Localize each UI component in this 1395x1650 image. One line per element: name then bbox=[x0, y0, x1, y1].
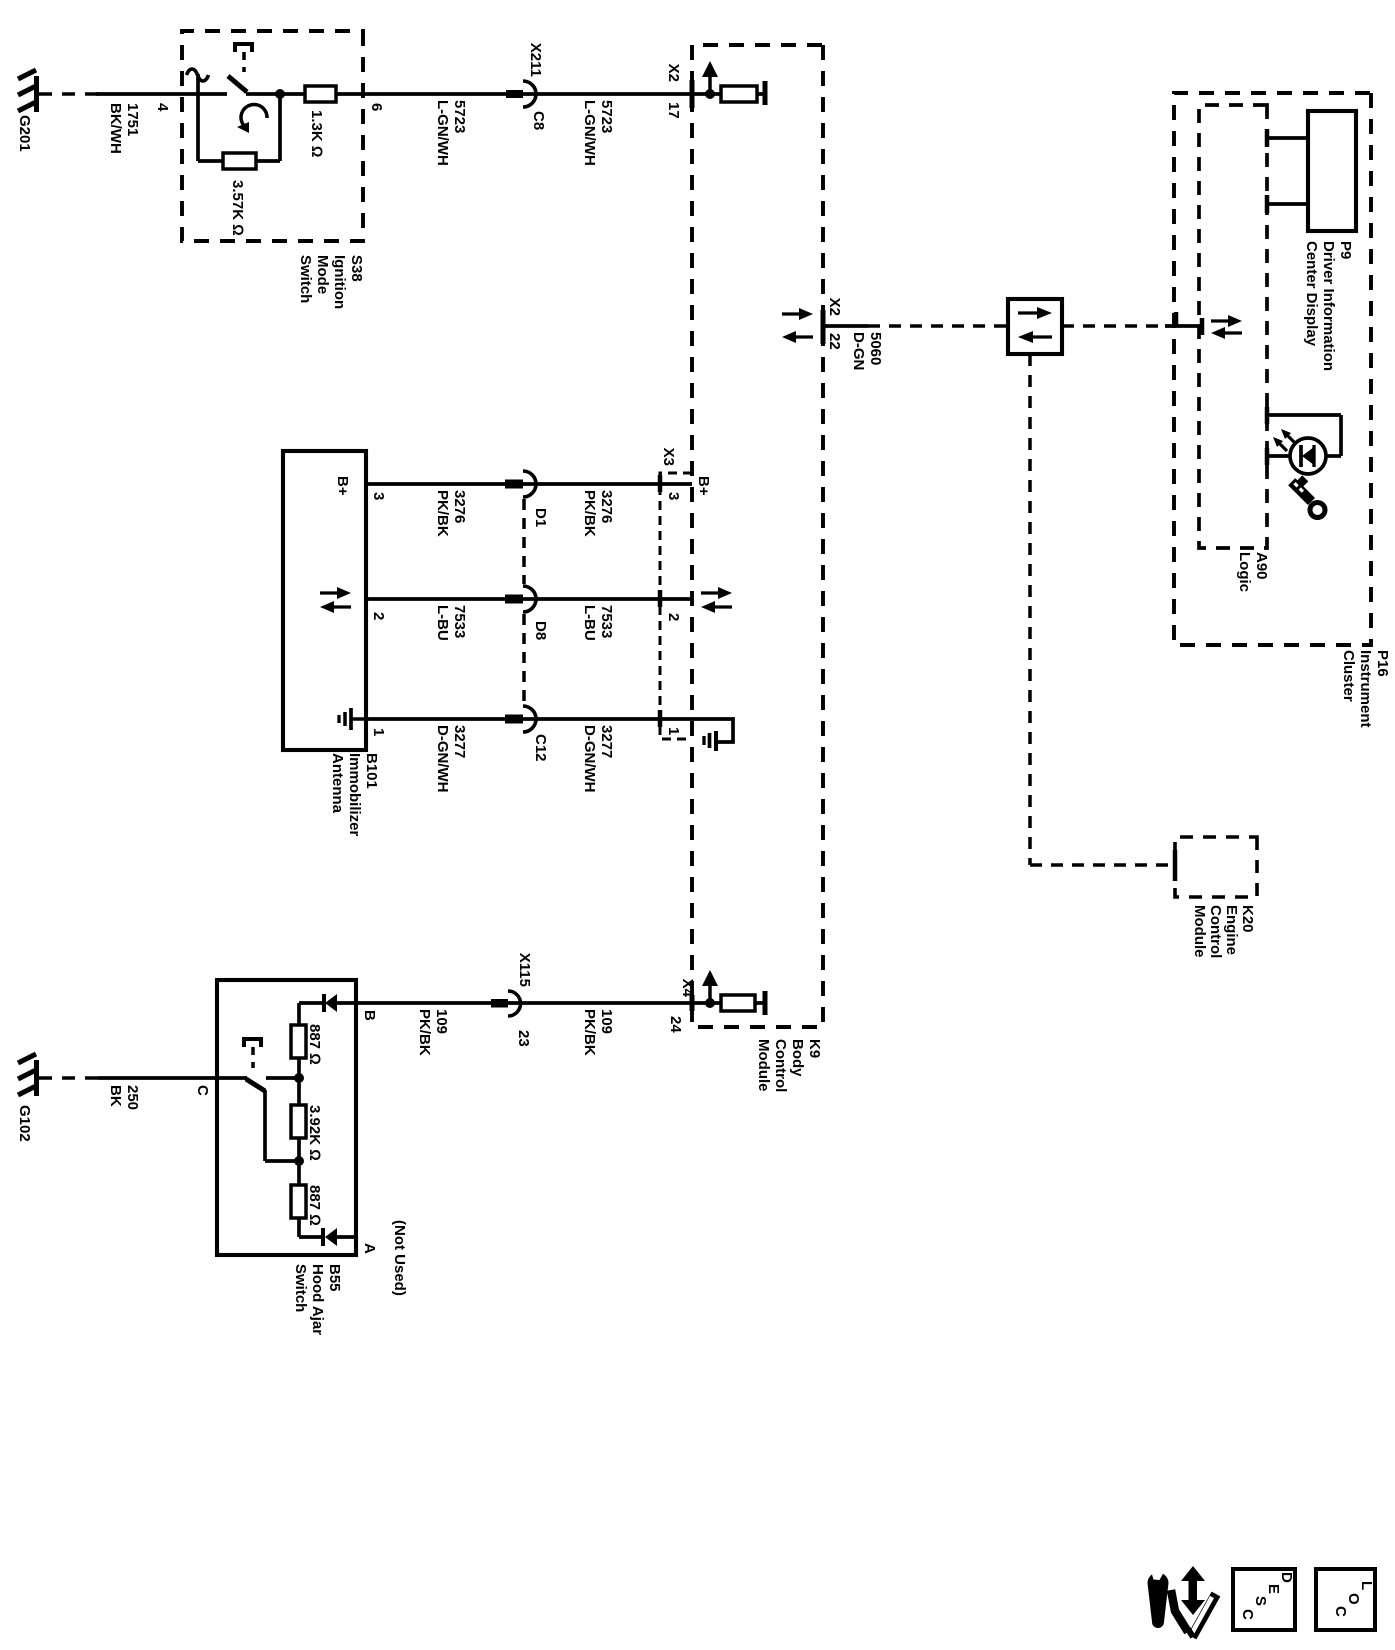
junction node B55 ladder right bbox=[294, 1156, 304, 1166]
svg-text:B101: B101 bbox=[363, 753, 380, 789]
svg-text:2: 2 bbox=[665, 613, 682, 621]
pin labels B101 bbox=[370, 492, 387, 736]
svg-text:22: 22 bbox=[826, 333, 843, 350]
pin labels B55 bbox=[194, 1010, 408, 1296]
switch S38 box (Ignition Mode Switch) bbox=[182, 31, 365, 309]
svg-text:Switch: Switch bbox=[297, 255, 314, 303]
svg-text:Control: Control bbox=[772, 1039, 789, 1092]
serial data arrows inside A90 bbox=[1211, 315, 1242, 339]
resistor 3.92K bbox=[291, 1078, 323, 1161]
wire D1 to X3-3 (3276 PK/BK) bbox=[523, 484, 692, 537]
wire D8 to X3-2 (7533 L-BU) bbox=[523, 599, 692, 641]
ground symbol inside BCM at X3-1 bbox=[692, 719, 733, 751]
svg-text:D: D bbox=[1278, 1572, 1295, 1583]
pin ticks X3 bbox=[658, 475, 663, 727]
svg-text:B55: B55 bbox=[326, 1264, 343, 1292]
svg-text:Body: Body bbox=[789, 1039, 806, 1077]
svg-text:X115: X115 bbox=[516, 953, 533, 987]
svg-text:L: L bbox=[1358, 1581, 1375, 1590]
pin X2 17 tick bbox=[665, 64, 692, 119]
svg-text:Module: Module bbox=[1191, 905, 1208, 958]
internal terminal bar at X4-24 bbox=[763, 991, 768, 1015]
svg-text:B+: B+ bbox=[334, 476, 351, 496]
svg-text:1: 1 bbox=[665, 727, 682, 735]
resistor 3.57K bbox=[223, 153, 256, 236]
connector dashed link D1-D8-C12 bbox=[522, 499, 526, 704]
LOC link box bbox=[1316, 1569, 1375, 1630]
svg-text:X3: X3 bbox=[660, 448, 677, 466]
svg-text:Center Display: Center Display bbox=[1303, 241, 1320, 347]
svg-text:PK/BK: PK/BK bbox=[416, 1009, 433, 1056]
svg-text:Driver Information: Driver Information bbox=[1320, 241, 1337, 371]
vehicle security key icon bbox=[1288, 473, 1327, 520]
wire S38 pin 6 to connector X211 (5723 L-GN/WH) bbox=[336, 94, 506, 166]
inline connector terminal C12 bbox=[505, 706, 549, 762]
svg-text:5723: 5723 bbox=[598, 100, 615, 133]
wire B101 pin1 to C12 (3277 D-GN/WH) bbox=[366, 719, 523, 793]
svg-text:BK: BK bbox=[107, 1085, 124, 1107]
svg-text:3277: 3277 bbox=[598, 725, 615, 758]
resistor 3.57K branch wires bbox=[198, 94, 280, 161]
pin tick into K20 bbox=[1173, 850, 1178, 881]
junction node (3.57K rejoin) bbox=[275, 89, 285, 99]
wire inside BCM at X4-24 bbox=[692, 1001, 765, 1005]
svg-text:109: 109 bbox=[433, 1009, 450, 1034]
svg-text:X2: X2 bbox=[826, 298, 843, 316]
svg-text:17: 17 bbox=[665, 102, 682, 119]
bus solid entry into P16/A90 bbox=[1165, 312, 1202, 335]
svg-text:(Not Used): (Not Used) bbox=[391, 1220, 408, 1296]
svg-text:C8: C8 bbox=[530, 111, 547, 130]
svg-text:887 Ω: 887 Ω bbox=[306, 1024, 323, 1065]
svg-text:Instrument: Instrument bbox=[1357, 650, 1374, 728]
blade branch to ladder mid bbox=[265, 1090, 299, 1161]
svg-text:Antenna: Antenna bbox=[329, 753, 346, 814]
svg-text:X2: X2 bbox=[665, 64, 682, 82]
pivot line S38 bbox=[196, 74, 200, 161]
svg-text:5723: 5723 bbox=[451, 100, 468, 133]
svg-text:G201: G201 bbox=[16, 115, 33, 152]
internal resistor at X4-24 bbox=[721, 995, 755, 1011]
pin X2 22 tick bbox=[823, 298, 843, 350]
switch blade S38 bbox=[228, 76, 247, 92]
module P16 Instrument Cluster box bbox=[1174, 93, 1391, 728]
inline connector X211 terminal C8 bbox=[506, 43, 547, 130]
svg-text:24: 24 bbox=[667, 1016, 684, 1033]
svg-text:2: 2 bbox=[370, 612, 387, 620]
module A90 Logic box bbox=[1199, 105, 1270, 592]
serial data junction box bbox=[1008, 299, 1062, 354]
LED security indicator bbox=[1273, 429, 1326, 474]
svg-text:PK/BK: PK/BK bbox=[581, 1009, 598, 1056]
svg-text:E: E bbox=[1265, 1584, 1282, 1594]
svg-text:K20: K20 bbox=[1239, 905, 1256, 933]
svg-text:C: C bbox=[1239, 1609, 1256, 1620]
svg-text:G102: G102 bbox=[16, 1105, 33, 1142]
bus branch junction box to K20 bbox=[1030, 354, 1175, 865]
wire inside BCM at X2-17 bbox=[692, 92, 765, 96]
switch blade B55 bbox=[217, 1078, 299, 1091]
svg-text:B+: B+ bbox=[695, 476, 712, 496]
rotary arrow S38 bbox=[237, 104, 267, 133]
inline connector X115 terminal 23 bbox=[491, 953, 533, 1047]
svg-text:Immobilizer: Immobilizer bbox=[346, 753, 363, 837]
module K9 Body Control Module box bbox=[692, 45, 823, 1092]
mechanical link bracket S38 bbox=[235, 44, 252, 72]
LED indicator wiring loop bbox=[1267, 407, 1341, 465]
svg-text:D-GN/WH: D-GN/WH bbox=[581, 725, 598, 793]
diode at B55 pin B bbox=[299, 994, 356, 1012]
serial data arrows inside BCM at X3-2 bbox=[701, 587, 732, 613]
resistor 887 ohm first bbox=[291, 1003, 323, 1078]
svg-text:C: C bbox=[194, 1085, 211, 1096]
svg-text:3: 3 bbox=[370, 492, 387, 500]
svg-text:P16: P16 bbox=[1374, 650, 1391, 677]
svg-text:K9: K9 bbox=[806, 1039, 823, 1058]
inline connector terminal D1 bbox=[505, 471, 549, 527]
mechanical link bracket B55 bbox=[244, 1039, 261, 1068]
junction node B55 ladder left bbox=[294, 1073, 304, 1083]
svg-text:BK/WH: BK/WH bbox=[107, 103, 124, 154]
wire to B55 pin A with diode bbox=[299, 1228, 356, 1246]
svg-text:1: 1 bbox=[370, 728, 387, 736]
switch B55 Hood Ajar Switch box bbox=[217, 980, 356, 1335]
serial data arrows inside B101 pin 2 bbox=[320, 587, 351, 613]
svg-text:X211: X211 bbox=[527, 43, 544, 77]
svg-text:3276: 3276 bbox=[598, 490, 615, 523]
svg-text:3: 3 bbox=[665, 492, 682, 500]
svg-text:D1: D1 bbox=[532, 508, 549, 527]
inline connector terminal D8 bbox=[505, 586, 549, 640]
wire B55 pin C to G102 (250 BK) bbox=[39, 1078, 217, 1110]
svg-text:23: 23 bbox=[515, 1030, 532, 1047]
svg-text:D-GN: D-GN bbox=[850, 332, 867, 370]
ground G102 bbox=[16, 1054, 39, 1142]
svg-text:3276: 3276 bbox=[451, 490, 468, 523]
svg-text:A90: A90 bbox=[1253, 552, 1270, 580]
svg-text:1751: 1751 bbox=[124, 103, 141, 136]
svg-text:PK/BK: PK/BK bbox=[434, 490, 451, 537]
ground symbol inside B101 pin 1 bbox=[339, 708, 366, 730]
node at X2-17 arrow branch bbox=[705, 89, 715, 99]
component B101 Immobilizer Antenna box bbox=[283, 451, 380, 837]
svg-text:PK/BK: PK/BK bbox=[581, 490, 598, 537]
svg-text:C: C bbox=[1332, 1606, 1349, 1617]
internal terminal bar at X2-17 bbox=[763, 81, 768, 105]
svg-text:S38: S38 bbox=[348, 255, 365, 282]
svg-text:1.3K Ω: 1.3K Ω bbox=[308, 110, 325, 157]
wire BCM X4-24 to X115 (109 PK/BK) bbox=[519, 1003, 692, 1056]
svg-text:X4: X4 bbox=[679, 979, 696, 998]
wire B101 pin3 to D1 (3276 PK/BK) bbox=[366, 484, 523, 537]
svg-text:Engine: Engine bbox=[1223, 905, 1240, 955]
connector X3 sub-box on BCM bbox=[660, 448, 692, 739]
wire X115 to B55 pin B (109 PK/BK) bbox=[356, 1003, 519, 1056]
pin X4 24 tick bbox=[667, 979, 696, 1034]
B+ feed arrow at X4-24 bbox=[702, 970, 718, 1003]
svg-text:3277: 3277 bbox=[451, 725, 468, 758]
svg-text:109: 109 bbox=[598, 1009, 615, 1034]
svg-text:Logic: Logic bbox=[1236, 552, 1253, 592]
wrench icon bbox=[1148, 1570, 1169, 1629]
svg-text:S: S bbox=[1252, 1596, 1269, 1606]
B+ feed arrow at X2-17 bbox=[702, 61, 718, 94]
bus junction box to P16 bbox=[1062, 324, 1167, 328]
internal resistor at X2-17 bbox=[721, 86, 757, 102]
svg-text:7533: 7533 bbox=[451, 605, 468, 638]
wire X211 to BCM X2-17 (5723 L-GN/WH) bbox=[523, 94, 692, 166]
DESC link box bbox=[1233, 1569, 1295, 1630]
svg-text:Mode: Mode bbox=[314, 255, 331, 294]
svg-text:5060: 5060 bbox=[867, 332, 884, 365]
svg-text:D8: D8 bbox=[532, 621, 549, 640]
svg-text:6: 6 bbox=[368, 103, 385, 111]
svg-text:Cluster: Cluster bbox=[1340, 650, 1357, 702]
resistor 887 ohm second bbox=[291, 1161, 323, 1237]
ground G201 bbox=[16, 70, 39, 152]
node at X4-24 arrow branch bbox=[705, 998, 715, 1008]
svg-text:Switch: Switch bbox=[292, 1264, 309, 1312]
resistor 1.3K bbox=[305, 86, 336, 157]
wire B101 pin2 to D8 (7533 L-BU) bbox=[366, 599, 523, 641]
svg-text:Hood Ajar: Hood Ajar bbox=[309, 1264, 326, 1335]
wire 5060 D-GN BCM to splice box bbox=[823, 326, 1008, 370]
svg-text:L-BU: L-BU bbox=[434, 605, 451, 641]
svg-text:250: 250 bbox=[124, 1085, 141, 1110]
svg-text:L-GN/WH: L-GN/WH bbox=[434, 100, 451, 166]
svg-text:3.57K Ω: 3.57K Ω bbox=[229, 180, 246, 236]
wires P9 to A90 bbox=[1267, 129, 1308, 213]
display P9 Driver Information Center Display bbox=[1303, 111, 1356, 371]
wire C12 to X3-1 (3277 D-GN/WH) bbox=[523, 719, 692, 793]
svg-text:3.92K Ω: 3.92K Ω bbox=[306, 1105, 323, 1161]
svg-text:Control: Control bbox=[1207, 905, 1224, 958]
svg-text:C12: C12 bbox=[532, 734, 549, 762]
module K20 Engine Control Module box bbox=[1175, 837, 1257, 958]
wire S38 upper segment bbox=[246, 92, 305, 96]
svg-text:B: B bbox=[361, 1010, 378, 1021]
svg-text:Ignition: Ignition bbox=[331, 255, 348, 309]
svg-text:Module: Module bbox=[755, 1039, 772, 1092]
svg-text:L-BU: L-BU bbox=[581, 605, 598, 641]
wire G201 to S38 pin 4 (1751 BK/WH) bbox=[39, 94, 227, 154]
svg-text:A: A bbox=[361, 1243, 378, 1254]
pin labels X3 bbox=[665, 492, 682, 735]
svg-text:L-GN/WH: L-GN/WH bbox=[581, 100, 598, 166]
svg-text:7533: 7533 bbox=[598, 605, 615, 638]
svg-text:4: 4 bbox=[154, 103, 171, 112]
svg-text:887 Ω: 887 Ω bbox=[306, 1185, 323, 1226]
svg-text:O: O bbox=[1345, 1593, 1362, 1605]
svg-text:P9: P9 bbox=[1337, 241, 1354, 259]
serial data arrows inside BCM at X2-22 bbox=[782, 308, 813, 343]
pivot hook S38 bbox=[187, 69, 209, 81]
harness arrows icon bbox=[1171, 1566, 1216, 1637]
svg-text:D-GN/WH: D-GN/WH bbox=[434, 725, 451, 793]
